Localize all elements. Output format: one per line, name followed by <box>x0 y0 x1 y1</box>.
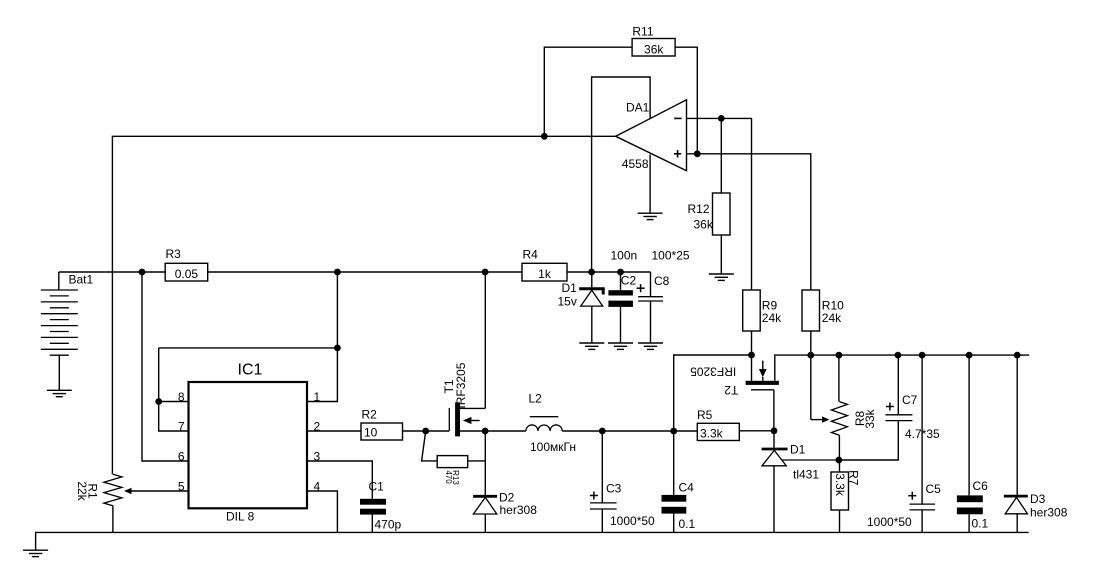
op-amp U1 DA1 triangle <box>616 100 687 171</box>
wire R11 left lead <box>544 47 632 136</box>
capacitor C6 <box>957 355 989 532</box>
wire C4 branch up to T2 source rail <box>674 355 752 431</box>
wire op-amp V+ pin loop <box>592 77 651 272</box>
svg-text:C3: C3 <box>606 482 622 496</box>
wire gate to R13 <box>422 431 438 461</box>
wire R10 wiper lead <box>810 355 812 420</box>
resistor R2 <box>361 408 403 441</box>
wire pin2 to R2 <box>307 430 361 432</box>
svg-text:C1: C1 <box>369 480 385 494</box>
node rail dot R10 <box>807 352 814 359</box>
wire pin6 <box>142 272 189 461</box>
transistor Q1 T1 IRF3205 <box>442 272 485 436</box>
node rail dot C6 <box>966 352 973 359</box>
node plus input dot <box>694 150 701 157</box>
node pin8 junction dot <box>155 398 162 405</box>
svg-text:1000*50: 1000*50 <box>610 514 655 528</box>
ground under R12 <box>709 274 734 280</box>
svg-text:0.1: 0.1 <box>972 517 989 531</box>
svg-text:15v: 15v <box>558 295 577 309</box>
node rail dot x591.6 <box>588 269 595 276</box>
svg-text:3.3k: 3.3k <box>833 473 847 497</box>
svg-text:36k: 36k <box>644 43 664 57</box>
svg-text:3.3k: 3.3k <box>700 427 724 441</box>
svg-text:4558: 4558 <box>622 157 649 171</box>
capacitor C1 <box>360 480 402 533</box>
svg-text:22k: 22k <box>75 481 89 501</box>
svg-text:C7: C7 <box>902 393 918 407</box>
wire pin8 <box>159 401 189 403</box>
svg-text:R5: R5 <box>697 408 713 422</box>
svg-text:C6: C6 <box>973 479 989 493</box>
node rail dot C5 <box>919 352 926 359</box>
node T2 source dot <box>748 352 755 359</box>
wire pin4 <box>307 491 337 532</box>
capacitor C4 <box>662 431 696 532</box>
svg-text:24k: 24k <box>822 311 842 325</box>
wire rail middle <box>208 271 522 273</box>
svg-text:IRF3205: IRF3205 <box>454 362 468 408</box>
wire R11 right lead <box>675 47 697 154</box>
ground under C2 <box>608 343 633 349</box>
svg-text:1k: 1k <box>538 267 552 281</box>
svg-text:her308: her308 <box>500 503 538 517</box>
svg-text:10: 10 <box>364 426 378 440</box>
potentiometer R1 <box>75 474 122 532</box>
potentiometer R1 wiper arrow <box>124 488 132 494</box>
node C3 dot <box>599 428 606 435</box>
battery Bat1 <box>41 272 94 390</box>
wire T1 source down <box>484 431 486 495</box>
svg-text:100n: 100n <box>611 249 638 263</box>
node T1 source dot <box>482 428 489 435</box>
transistor Q2 T2 IRF3205 <box>690 355 1029 431</box>
resistor R11 <box>632 25 675 57</box>
svg-text:IRF3205: IRF3205 <box>690 365 736 379</box>
node rail dot C7 <box>895 352 902 359</box>
wire op-amp V- pin to ground <box>649 154 651 213</box>
wire rail left <box>59 271 165 273</box>
diode D3 her308 <box>1004 355 1068 532</box>
svg-text:D1: D1 <box>790 443 806 457</box>
capacitor C5 electrolytic <box>867 355 941 532</box>
wire rail right of R4 <box>567 271 651 273</box>
inductor L2 <box>526 392 576 455</box>
svg-text:R4: R4 <box>523 248 539 262</box>
wire R5 right <box>739 430 774 432</box>
wire non-inverting input <box>687 154 811 290</box>
svg-text:100*25: 100*25 <box>652 249 690 263</box>
svg-text:0.05: 0.05 <box>175 267 199 281</box>
node gate dot <box>422 428 429 435</box>
wire pin7 <box>159 348 189 431</box>
wire pin5 <box>131 490 189 492</box>
potentiometer R8 wiper arrow <box>822 416 830 422</box>
node rail dot x620.5 <box>617 269 624 276</box>
resistor R3 <box>165 247 208 281</box>
svg-text:24k: 24k <box>762 311 782 325</box>
wire inverting input <box>687 118 752 290</box>
ground bottom left <box>23 550 48 556</box>
node R12 top dot <box>718 115 725 122</box>
svg-text:R11: R11 <box>632 25 653 39</box>
resistor R12 <box>688 118 731 274</box>
svg-text:C5: C5 <box>926 482 942 496</box>
potentiometer R8 <box>831 355 877 460</box>
wire pin3 <box>307 461 372 499</box>
wire source row to L2 <box>485 430 526 432</box>
svg-text:R7: R7 <box>847 470 861 486</box>
svg-text:100мкГн: 100мкГн <box>530 440 576 454</box>
resistor R5 <box>697 408 739 441</box>
svg-text:C2: C2 <box>621 274 637 288</box>
zener diode D1 15v <box>558 272 605 343</box>
svg-text:D3: D3 <box>1030 492 1046 506</box>
svg-text:D1: D1 <box>562 281 578 295</box>
resistor R10 <box>802 290 844 355</box>
node ref dot <box>836 457 843 464</box>
svg-text:36k: 36k <box>694 218 714 232</box>
svg-text:her308: her308 <box>1030 506 1068 520</box>
svg-text:C4: C4 <box>679 481 695 495</box>
svg-text:470p: 470p <box>375 518 402 532</box>
resistor R4 <box>522 248 567 282</box>
wire L2 to C3 to C4 <box>562 430 697 432</box>
svg-text:Bat1: Bat1 <box>69 273 94 287</box>
svg-text:DA1: DA1 <box>626 100 650 114</box>
svg-text:0.1: 0.1 <box>679 517 696 531</box>
node link dot <box>334 345 341 352</box>
capacitor C2 <box>608 249 637 344</box>
svg-text:R12: R12 <box>688 202 710 216</box>
svg-text:IC1: IC1 <box>238 362 263 379</box>
svg-text:R3: R3 <box>166 247 182 261</box>
node output junction dot <box>541 133 548 140</box>
ground under op-amp <box>638 213 663 219</box>
capacitor C3 electrolytic <box>590 431 655 532</box>
resistor R9 <box>743 290 782 355</box>
svg-text:tl431: tl431 <box>793 468 819 482</box>
node rail dot R8 <box>836 352 843 359</box>
capacitor C7 electrolytic <box>839 355 940 460</box>
node rail dot D3 <box>1014 352 1021 359</box>
svg-text:L2: L2 <box>529 392 543 406</box>
capacitor C8 electrolytic <box>637 249 690 344</box>
ground under D1 <box>579 343 604 349</box>
svg-text:33k: 33k <box>863 408 877 428</box>
diode D2 her308 <box>473 491 537 533</box>
resistor R13 <box>437 456 485 486</box>
svg-text:T2: T2 <box>724 383 738 397</box>
svg-text:1000*50: 1000*50 <box>867 515 912 529</box>
node rail dot x485 <box>482 269 489 276</box>
ground under C8 <box>638 343 663 349</box>
wire bottom rail <box>36 532 1029 550</box>
svg-text:C8: C8 <box>654 274 670 288</box>
resistor R7 <box>831 460 861 532</box>
node rail dot x337 <box>334 269 341 276</box>
wire R2 to gate <box>403 430 450 432</box>
svg-text:DIL 8: DIL 8 <box>226 510 255 524</box>
svg-text:470: 470 <box>444 470 453 484</box>
IC IC1 DIL8 <box>178 362 321 524</box>
wire pin1 <box>307 348 337 402</box>
ground under battery <box>47 390 72 396</box>
node R5 gate D1 dot <box>771 427 778 434</box>
svg-text:R2: R2 <box>362 408 378 422</box>
wire pins link top <box>159 272 338 348</box>
shunt reference diode D1 tl431 <box>762 431 839 533</box>
node rail dot x142 <box>139 269 146 276</box>
wire op-amp output <box>112 136 615 474</box>
node C4 dot <box>670 428 677 435</box>
